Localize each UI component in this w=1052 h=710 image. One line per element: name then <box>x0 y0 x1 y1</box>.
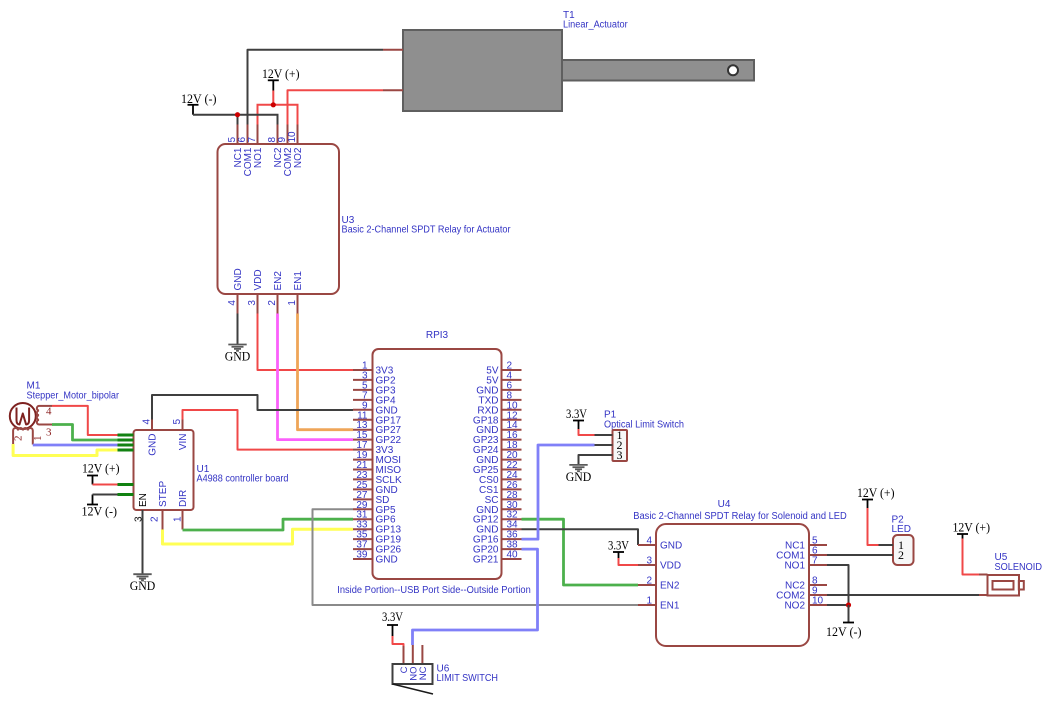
RPI3 pin 29 GP5 <box>353 500 396 516</box>
wire RPI3 GND pin34 to U4 GND (black) <box>522 529 639 545</box>
power flag 12V (-) at U1 <box>82 495 118 519</box>
label P1 <box>604 410 684 431</box>
svg-text:39: 39 <box>356 550 368 561</box>
U1 pin 4 GND (top) <box>142 419 159 456</box>
wire U1 STEP to RPI3 GP13 (yellow) <box>163 529 354 544</box>
svg-text:Basic 2-Channel SPDT Relay for: Basic 2-Channel SPDT Relay for Actuator <box>342 225 512 236</box>
U4 pin 4 GND <box>638 536 682 552</box>
actuator T1 pin 1 stub <box>383 49 403 51</box>
label U6 <box>437 664 499 685</box>
U4 pin 1 EN1 <box>638 596 680 612</box>
wire U4 NO1 to NO2 node (black) <box>827 565 849 605</box>
wire COM1 to actuator pin1 <box>248 50 384 125</box>
actuator T1 rod <box>562 60 754 81</box>
connector RPI3 body <box>373 349 502 579</box>
wire 12V- to U1 GND pin <box>93 494 118 496</box>
U1 pin 5 VIN (top) <box>172 419 189 451</box>
svg-text:NO1: NO1 <box>253 147 264 168</box>
svg-text:2: 2 <box>898 548 904 562</box>
U6 pin NO stub <box>412 645 414 664</box>
motor M1 body <box>10 403 36 429</box>
junction 12V+ node <box>271 102 276 107</box>
svg-text:4: 4 <box>46 406 52 418</box>
svg-text:NO2: NO2 <box>784 601 805 612</box>
RPI3 pin 32 GP12 <box>473 510 522 526</box>
wire 12V+ to solenoid (red) <box>963 539 980 575</box>
solenoid U5 pin stubs <box>979 575 988 596</box>
svg-text:VDD: VDD <box>660 561 681 572</box>
RPI3 pin 21 MISO <box>353 460 401 476</box>
M1 pin 3 number <box>46 427 52 439</box>
M1 pin 2 number <box>12 436 24 442</box>
U4 pin 9 COM2 <box>776 586 827 602</box>
RPI3 pin 40 GP21 <box>473 550 522 566</box>
RPI3 pin 27 SD <box>353 490 389 506</box>
svg-text:GND: GND <box>233 268 244 290</box>
wire RPI3 GP12 to U4 EN2 (green) <box>522 519 639 585</box>
svg-text:40: 40 <box>507 550 519 561</box>
wire 12V+ to P2 pin1 (red) <box>868 508 879 545</box>
motor M1 coil B (bottom) <box>13 428 33 444</box>
ground symbol P1 <box>566 465 592 484</box>
U4 pin 7 NO1 <box>784 556 827 572</box>
RPI3 pin 12 GP18 <box>473 410 522 426</box>
power flag 12V (+) top <box>262 66 300 91</box>
RPI3 pin 3 GP2 <box>353 370 396 386</box>
svg-text:3: 3 <box>617 448 623 462</box>
svg-text:7: 7 <box>812 556 818 567</box>
wire 12V+ to U1 VDD pin <box>93 484 118 486</box>
RPI3 pin 17 3V3 <box>353 440 394 456</box>
U3 pin 2 EN2 <box>267 271 284 314</box>
wire U1 DIR to RPI3 GP6 (green) <box>183 519 354 530</box>
wire U1 EN to ground <box>142 510 144 574</box>
svg-text:VIN: VIN <box>178 434 189 451</box>
svg-text:12V (+): 12V (+) <box>953 520 991 535</box>
label Inside Portion--USB Port Side--Outside Portion <box>337 585 531 596</box>
U4 pin 10 NO2 <box>784 596 827 612</box>
RPI3 pin 15 GP22 <box>353 430 402 446</box>
svg-text:10: 10 <box>812 596 824 607</box>
svg-text:GND: GND <box>148 434 159 456</box>
svg-text:3.3V: 3.3V <box>608 538 629 553</box>
svg-text:EN1: EN1 <box>293 271 304 291</box>
U1 power pin stubs (green) <box>118 485 134 495</box>
RPI3 pin 33 GP13 <box>353 520 402 536</box>
svg-text:EN1: EN1 <box>660 601 680 612</box>
wire P1 pin3 to ground <box>579 455 595 465</box>
controller U1 body <box>134 430 194 510</box>
RPI3 pin 10 RXD <box>477 400 521 416</box>
RPI3 pin 7 GP4 <box>353 390 396 406</box>
U6 pin C stub <box>403 646 405 664</box>
svg-text:2: 2 <box>267 300 278 306</box>
U3 pin 7 NO1 <box>247 125 264 169</box>
svg-text:3: 3 <box>646 556 652 567</box>
junction 12V- node <box>235 112 240 117</box>
U4 pin 8 NC2 <box>785 576 827 592</box>
svg-text:LED: LED <box>892 524 911 535</box>
connector P2 body <box>893 535 914 565</box>
wire 3.3V to P1 pin1 (red) <box>579 429 595 435</box>
wire M1 pin1 to U1 (blue) <box>33 444 118 447</box>
U3 pin 8 NC2 <box>267 125 284 168</box>
wire U3 EN1 to RPI3 GP27 (orange) <box>298 314 354 430</box>
U4 pin 6 COM1 <box>776 546 827 562</box>
svg-text:GND: GND <box>376 555 398 566</box>
label U3 <box>342 215 512 236</box>
svg-text:4: 4 <box>646 536 652 547</box>
svg-text:A4988 controller board: A4988 controller board <box>197 474 289 485</box>
svg-text:GND: GND <box>566 469 592 484</box>
wire U3 GND pin to ground <box>237 314 239 345</box>
svg-text:NO2: NO2 <box>293 147 304 168</box>
svg-text:Inside Portion--USB Port Side-: Inside Portion--USB Port Side--Outside P… <box>337 585 531 596</box>
label U1 <box>197 464 289 485</box>
RPI3 pin 35 GP19 <box>353 530 402 546</box>
RPI3 pin 16 GP23 <box>473 430 522 446</box>
svg-text:2: 2 <box>646 576 652 587</box>
power flag 12V (+) at U1 <box>82 461 120 485</box>
power flag 12V (-) top <box>181 91 217 115</box>
U3 pin 10 NO2 <box>287 125 304 169</box>
relay U4 body <box>656 524 809 646</box>
power flag 3.3V at U4 <box>608 538 629 559</box>
RPI3 pin 5 GP3 <box>353 380 396 396</box>
svg-text:Linear_Actuator: Linear_Actuator <box>563 20 628 31</box>
svg-text:SOLENOID: SOLENOID <box>995 562 1043 573</box>
U4 pin 3 VDD <box>638 556 681 572</box>
RPI3 pin 11 GP17 <box>353 410 402 426</box>
wire U3 EN2 to RPI3 GP22 (magenta) <box>278 314 354 440</box>
label M1 <box>27 381 120 402</box>
svg-text:4: 4 <box>142 419 153 425</box>
P2 pin 2 <box>879 548 905 562</box>
wire U1 VIN pin5 to RPI3 3V3 pin17 (red) <box>183 410 354 450</box>
wire M1 pin4 to U1 (red) <box>52 406 118 435</box>
solenoid U5 body <box>988 575 1024 596</box>
switch U6 lever <box>393 684 434 694</box>
svg-text:1: 1 <box>287 300 298 306</box>
wire M1 pin2 to U1 (yellow) <box>13 444 117 456</box>
U4 pin 2 EN2 <box>638 576 680 592</box>
svg-text:Stepper_Motor_bipolar: Stepper_Motor_bipolar <box>27 391 120 402</box>
wire RPI3 GP5 to U4 EN1 (gray) <box>313 509 639 605</box>
svg-text:1: 1 <box>32 436 44 442</box>
RPI3 pin 34 GND <box>476 520 521 536</box>
P2 pin 1 <box>879 538 905 552</box>
M1 pin 1 number <box>32 436 44 442</box>
motor M1 coil A (right) <box>37 406 52 425</box>
RPI3 pin 26 CS1 <box>479 480 521 496</box>
RPI3 pin 38 GP20 <box>473 540 522 556</box>
P1 pin 2 <box>595 438 623 452</box>
switch U6 body <box>393 664 433 684</box>
RPI3 pin 31 GP6 <box>353 510 396 526</box>
RPI3 pin 23 SCLK <box>353 470 402 486</box>
svg-text:1: 1 <box>173 516 184 522</box>
relay U3 body <box>218 144 340 294</box>
U3 pin 1 EN1 <box>287 271 304 314</box>
U1 pin 3 EN (bottom) <box>134 493 150 522</box>
svg-text:EN2: EN2 <box>273 271 284 291</box>
svg-text:3: 3 <box>46 427 52 439</box>
RPI3 pin 1 3V3 <box>353 361 394 377</box>
wire RPI3 GP16 to P1 pin2 (blue) <box>522 445 595 539</box>
ground symbol U1 <box>130 574 156 593</box>
power flag 3.3V at U6 <box>382 609 403 636</box>
power flag 12V (+) at P2 <box>857 485 895 508</box>
power flag 3.3V at P1 <box>566 406 587 429</box>
label U5 <box>995 552 1043 573</box>
svg-text:12V (+): 12V (+) <box>857 485 895 500</box>
RPI3 pin 4 5V <box>486 370 521 386</box>
U4 pin 5 NC1 <box>785 536 827 552</box>
svg-text:12V (+): 12V (+) <box>262 66 300 81</box>
U3 pin 9 COM2 <box>277 125 294 177</box>
wire U4 NO2 to node (black) <box>827 604 849 606</box>
actuator T1 pin 2 stub <box>383 89 403 91</box>
actuator T1 body <box>403 30 562 111</box>
wire 3.3V to U4 VDD (red) <box>619 558 639 565</box>
svg-text:7: 7 <box>247 137 258 143</box>
RPI3 pin 24 CS0 <box>479 470 521 486</box>
label P2 <box>892 515 911 536</box>
svg-text:VDD: VDD <box>253 269 264 290</box>
svg-text:NC: NC <box>418 666 429 680</box>
RPI3 pin 30 GND <box>476 500 521 516</box>
U3 pin 6 COM1 <box>237 125 254 177</box>
wire M1 pin3 to U1 (green) <box>52 425 118 441</box>
wire U3 VDD to RPI3 3V3 pin1 (red) <box>258 314 354 371</box>
RPI3 pin 28 SC <box>485 490 522 506</box>
svg-text:EN: EN <box>138 493 149 507</box>
U6 pin NC stub <box>421 645 423 664</box>
svg-text:4: 4 <box>227 300 238 306</box>
wire COM2 to actuator pin2 <box>288 90 384 124</box>
svg-text:RPI3: RPI3 <box>426 330 449 341</box>
svg-text:2: 2 <box>12 436 24 442</box>
RPI3 pin 6 GND <box>476 380 521 396</box>
M1 pin 4 number <box>46 406 52 418</box>
label RPI3 <box>426 330 449 341</box>
wire U4 COM1 to P2 pin2 (black) <box>827 554 879 556</box>
P1 pin 1 <box>595 428 623 442</box>
svg-text:NO1: NO1 <box>784 561 805 572</box>
power flag 12V (+) at U5 <box>953 520 991 539</box>
U3 pin 4 GND <box>227 268 244 313</box>
RPI3 pin 13 GP27 <box>353 420 402 436</box>
label T1 <box>563 10 628 31</box>
RPI3 pin 36 GP16 <box>473 530 522 546</box>
U3 pin 3 VDD <box>247 269 264 313</box>
RPI3 pin 22 GP25 <box>473 460 522 476</box>
svg-text:12V (-): 12V (-) <box>82 504 118 519</box>
svg-text:5: 5 <box>172 419 183 425</box>
svg-text:12V (-): 12V (-) <box>826 624 862 639</box>
svg-text:10: 10 <box>287 131 298 143</box>
svg-text:3: 3 <box>247 300 258 306</box>
RPI3 pin 20 GND <box>476 450 521 466</box>
RPI3 pin 39 GND <box>353 550 398 566</box>
wire 3.3V to U6 C pin (red) <box>393 636 404 646</box>
label U4 <box>633 499 847 522</box>
svg-text:EN2: EN2 <box>660 581 680 592</box>
RPI3 pin 37 GP26 <box>353 540 402 556</box>
junction NO2 node <box>846 602 851 607</box>
U1 pin 2 STEP (bottom) <box>150 481 170 530</box>
U1 motor pin stubs (green) <box>118 435 134 450</box>
P1 pin 3 <box>595 448 623 462</box>
RPI3 pin 25 GND <box>353 480 398 496</box>
svg-text:Basic 2-Channel SPDT Relay for: Basic 2-Channel SPDT Relay for Solenoid … <box>633 511 847 522</box>
U1 pin 1 DIR (bottom) <box>173 490 190 530</box>
svg-text:3.3V: 3.3V <box>566 406 587 421</box>
connector P1 body <box>613 430 628 461</box>
svg-text:GND: GND <box>660 541 682 552</box>
svg-text:U4: U4 <box>718 499 731 510</box>
RPI3 pin 18 GP24 <box>473 440 522 456</box>
U3 pin 5 NC1 <box>227 125 244 168</box>
svg-text:STEP: STEP <box>158 481 169 507</box>
RPI3 pin 19 MOSI <box>353 450 401 466</box>
power flag 12V (-) at U4 <box>826 605 862 639</box>
wire U1 GND pin4 to RPI3 GND pin9 (black) <box>152 395 353 420</box>
ground symbol U3 <box>225 345 251 364</box>
svg-text:LIMIT SWITCH: LIMIT SWITCH <box>437 673 499 684</box>
wire U4 COM2 to solenoid (black) <box>827 594 979 596</box>
RPI3 pin 9 GND <box>353 400 398 416</box>
wire 12V- to NC1 and NC2 <box>193 115 279 125</box>
svg-text:GND: GND <box>225 349 251 364</box>
actuator T1 rod hole <box>728 65 738 75</box>
svg-text:GP21: GP21 <box>473 555 499 566</box>
svg-text:12V (+): 12V (+) <box>82 461 120 476</box>
RPI3 pin 14 GND <box>476 420 521 436</box>
RPI3 pin 8 TXD <box>479 390 522 406</box>
svg-text:GND: GND <box>130 578 156 593</box>
wire 12V+ to NO1 and NO2 <box>257 91 299 125</box>
svg-text:3.3V: 3.3V <box>382 609 403 624</box>
wire RPI3 GP20 to U6 NO (blue) <box>413 549 538 645</box>
svg-text:DIR: DIR <box>178 490 189 507</box>
svg-text:2: 2 <box>150 516 161 522</box>
svg-text:1: 1 <box>646 596 652 607</box>
RPI3 pin 2 5V <box>486 361 521 377</box>
svg-text:12V (-): 12V (-) <box>181 91 217 106</box>
